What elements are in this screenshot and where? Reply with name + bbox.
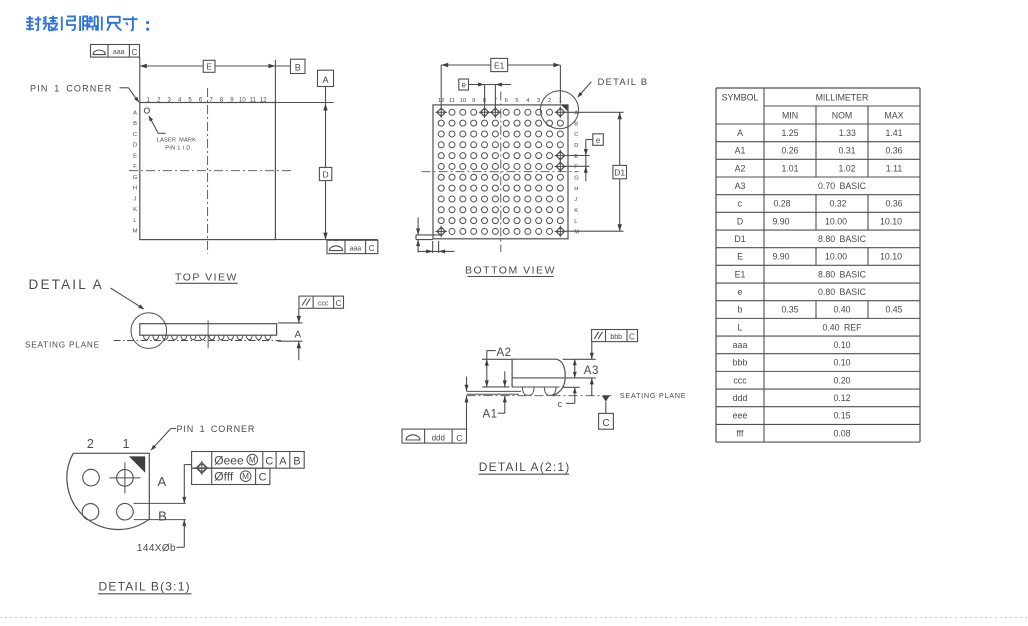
svg-text:c: c (558, 399, 563, 409)
svg-text:C: C (456, 433, 462, 443)
svg-text:0.80 BASIC: 0.80 BASIC (818, 287, 867, 297)
top view column numbers (147, 97, 268, 103)
feature control frame aaa (top-left) (91, 45, 140, 58)
svg-text:2: 2 (548, 98, 551, 104)
svg-text:D1: D1 (614, 167, 625, 177)
svg-text:c: c (738, 199, 743, 209)
feature control frame bbb (592, 330, 638, 342)
svg-text:Øeee: Øeee (214, 453, 244, 467)
svg-text:L: L (133, 218, 137, 224)
bbb leader arrow (590, 342, 594, 360)
svg-text:fff: fff (736, 428, 744, 438)
svg-text:L: L (574, 219, 578, 225)
substrate tail lines (467, 391, 522, 394)
bottom view package outline (433, 105, 568, 239)
detail B solder balls (82, 469, 133, 520)
svg-text:0.36: 0.36 (885, 146, 902, 156)
bottom view column numbers (438, 98, 562, 104)
svg-text:bbb: bbb (610, 334, 622, 341)
pin 1 wedge (bottom view) (561, 105, 567, 111)
svg-text:DETAIL B(3:1): DETAIL B(3:1) (99, 579, 191, 593)
svg-text:MAX: MAX (884, 110, 903, 120)
svg-text:A3: A3 (735, 181, 746, 191)
svg-text:C: C (369, 244, 375, 253)
svg-text:SYMBOL: SYMBOL (722, 92, 759, 102)
bottom edge extension (275, 239, 377, 241)
side view body (140, 324, 277, 336)
svg-text:A2: A2 (497, 347, 512, 359)
svg-text:e: e (738, 287, 743, 297)
side view centerline tick (207, 320, 209, 348)
pin 1 corner callout (detail B) (151, 424, 256, 451)
svg-text:0.45: 0.45 (885, 305, 902, 315)
svg-text:C: C (602, 418, 609, 429)
svg-text:0.32: 0.32 (829, 199, 846, 209)
callout 144Xb (137, 520, 186, 554)
detail A body section (512, 359, 565, 395)
svg-text:aaa: aaa (733, 340, 748, 350)
laser mark leader arrow (149, 115, 166, 133)
label BOTTOM VIEW (465, 265, 556, 277)
svg-text:M: M (249, 456, 256, 465)
dimension D1 with extension lines (566, 112, 627, 231)
top view row letters (133, 110, 138, 234)
position frame leader arrow (182, 465, 191, 504)
svg-text:0.28: 0.28 (773, 199, 790, 209)
svg-text:10.00: 10.00 (825, 252, 847, 262)
svg-text:C: C (265, 455, 273, 467)
svg-text:0.10: 0.10 (833, 358, 850, 368)
svg-text:E1: E1 (735, 269, 746, 279)
row label A (157, 474, 166, 489)
svg-text:D: D (133, 143, 137, 149)
pin 1 wedge (detail B) (129, 456, 145, 472)
svg-text:E: E (737, 252, 743, 262)
svg-text:0.36: 0.36 (885, 199, 902, 209)
svg-text:M: M (574, 230, 579, 236)
seating plane text (side view) (25, 340, 100, 349)
svg-text:A: A (737, 128, 743, 138)
dimension A3 (563, 359, 599, 378)
svg-text:aaa: aaa (113, 49, 125, 56)
svg-text:A1: A1 (735, 146, 746, 156)
dimension A1 (483, 371, 507, 420)
svg-text:10: 10 (460, 98, 466, 104)
svg-text:M: M (133, 229, 138, 235)
datum label B (291, 59, 306, 73)
svg-text:J: J (134, 196, 137, 202)
svg-text:F: F (133, 164, 137, 170)
feature control frame aaa (bottom-right) (327, 240, 378, 253)
ddd measurement arrows (465, 377, 469, 430)
bottom view solder ball grid (438, 109, 563, 234)
svg-text:e: e (596, 136, 601, 145)
svg-text:0.40: 0.40 (833, 305, 850, 315)
svg-text:A1: A1 (483, 408, 498, 420)
svg-text:9.90: 9.90 (772, 216, 789, 226)
svg-text:SEATING PLANE: SEATING PLANE (25, 340, 100, 349)
svg-text:C: C (574, 132, 578, 138)
svg-text:PIN 1 CORNER: PIN 1 CORNER (177, 424, 256, 434)
dimension e (ball pitch, right) (565, 134, 604, 182)
dimension e (ball pitch, top) (459, 79, 511, 112)
svg-text:0.20: 0.20 (833, 375, 850, 385)
svg-text:E: E (133, 153, 137, 159)
svg-text:M: M (242, 472, 249, 481)
svg-text:J: J (574, 197, 577, 203)
feature control frame ccc (299, 296, 344, 308)
svg-text:SEATING PLANE: SEATING PLANE (620, 391, 687, 400)
bottom view row letters (574, 111, 579, 236)
detail B circle (541, 91, 579, 129)
label DETAIL A(2:1) (479, 460, 571, 474)
svg-text:L: L (738, 322, 743, 332)
dimension D with arrows and boxed label D (319, 87, 331, 240)
svg-text:1.33: 1.33 (839, 128, 856, 138)
svg-text:bbb: bbb (733, 358, 748, 368)
svg-text:BOTTOM VIEW: BOTTOM VIEW (465, 265, 556, 277)
svg-text:5: 5 (515, 98, 518, 104)
pin 1 corner callout (top view) (30, 84, 139, 103)
svg-text:C: C (336, 299, 342, 308)
svg-text:E1: E1 (494, 60, 505, 70)
svg-text:1.01: 1.01 (781, 163, 798, 173)
svg-text:DETAIL A(2:1): DETAIL A(2:1) (479, 460, 571, 474)
svg-text:A: A (294, 329, 301, 340)
title text 封装|引脚|尺寸: (26, 16, 149, 31)
svg-text:C: C (259, 472, 267, 484)
svg-text:ccc: ccc (733, 375, 747, 385)
svg-text:4: 4 (526, 98, 530, 104)
label TOP VIEW (175, 271, 238, 283)
seating plane dash-dot line (467, 395, 615, 397)
bottom view vertical centerline (500, 92, 502, 253)
row label B (158, 508, 167, 523)
svg-text:C: C (132, 48, 138, 57)
svg-text:0.70 BASIC: 0.70 BASIC (818, 181, 867, 191)
svg-text:11: 11 (250, 97, 257, 103)
dimension A (side view) (278, 308, 303, 360)
svg-text:A3: A3 (584, 365, 599, 377)
svg-text:12: 12 (260, 97, 267, 103)
ball tangent lines (134, 503, 186, 519)
svg-text:aaa: aaa (349, 246, 361, 253)
svg-text:8.80 BASIC: 8.80 BASIC (818, 269, 867, 279)
svg-text:8.80 BASIC: 8.80 BASIC (818, 234, 867, 244)
datum label A (318, 70, 334, 86)
svg-text:ddd: ddd (733, 393, 748, 403)
svg-text:D1: D1 (734, 234, 745, 244)
svg-text:10.10: 10.10 (880, 252, 902, 262)
svg-text:G: G (133, 175, 138, 181)
svg-text:1.02: 1.02 (838, 163, 855, 173)
detail A solder balls (522, 387, 556, 395)
svg-text:11: 11 (449, 98, 455, 104)
seating-to-body arrow (590, 378, 594, 396)
svg-text:D: D (574, 143, 578, 149)
svg-text:DETAIL A: DETAIL A (29, 277, 104, 292)
svg-text:b: b (738, 305, 743, 315)
svg-text:10.00: 10.00 (825, 216, 847, 226)
svg-text:0.31: 0.31 (838, 146, 855, 156)
svg-text:0.15: 0.15 (833, 411, 850, 421)
svg-text:MILLIMETER: MILLIMETER (816, 92, 869, 102)
top view package outline (140, 103, 276, 240)
svg-text:H: H (574, 186, 578, 192)
svg-text:K: K (133, 207, 137, 213)
svg-text:Øfff: Øfff (214, 470, 234, 484)
svg-text:PIN 1 I.D.: PIN 1 I.D. (165, 146, 192, 152)
svg-text:1: 1 (123, 437, 130, 451)
svg-text:A: A (279, 455, 287, 467)
svg-text:0.35: 0.35 (781, 305, 798, 315)
svg-text:1.25: 1.25 (781, 128, 798, 138)
seating plane datum C (599, 396, 614, 429)
bottom view datum balls with crosshairs (435, 107, 566, 238)
svg-text:6: 6 (505, 98, 508, 104)
svg-text:C: C (133, 132, 137, 138)
svg-text:9.90: 9.90 (772, 252, 789, 262)
detail B datum ball A1 crosshair (110, 462, 141, 493)
detail B outline (67, 453, 149, 529)
svg-text:F: F (574, 165, 578, 171)
svg-text:0.26: 0.26 (781, 146, 798, 156)
svg-text:9: 9 (472, 98, 475, 104)
top edge extension (275, 102, 333, 104)
svg-text:E: E (206, 61, 212, 71)
detail A label and leader (29, 277, 145, 310)
top view horizontal centerline (129, 170, 292, 172)
page separator dotted line (0, 617, 1028, 619)
svg-text:1.41: 1.41 (885, 128, 902, 138)
detail A circle (131, 313, 167, 349)
svg-text:ccc: ccc (318, 301, 329, 308)
svg-text:LASER MARK: LASER MARK (157, 138, 196, 144)
svg-text:B: B (293, 455, 300, 467)
label DETAIL B(3:1) (98, 579, 192, 593)
dimension A2 (482, 347, 512, 387)
column label 1 (123, 437, 130, 451)
extension line right edge (274, 60, 276, 103)
svg-text:1.11: 1.11 (886, 163, 903, 173)
svg-text:0.10: 0.10 (833, 340, 850, 350)
top view vertical centerline (207, 88, 209, 254)
svg-text:PIN 1 CORNER: PIN 1 CORNER (30, 84, 112, 94)
svg-text:3: 3 (537, 98, 540, 104)
seating plane dash line (side view) (114, 340, 282, 342)
svg-text:C: C (629, 332, 635, 341)
svg-text:B: B (158, 508, 167, 523)
svg-text:MIN: MIN (782, 110, 798, 120)
laser mark text (157, 138, 196, 152)
svg-text:eee: eee (733, 411, 748, 421)
svg-text:D: D (737, 216, 743, 226)
side view solder balls (144, 335, 271, 340)
seating plane text (detail A) (620, 391, 687, 400)
svg-text:10: 10 (239, 97, 246, 103)
svg-text:A2: A2 (735, 163, 746, 173)
svg-text:E: E (574, 154, 578, 160)
dimension E with arrows and boxed label E (140, 60, 291, 72)
bottom view horizontal centerline (422, 171, 579, 173)
svg-text:ddd: ddd (432, 433, 445, 442)
svg-text:2: 2 (87, 437, 94, 451)
dimension c (558, 387, 580, 409)
column label 2 (87, 437, 94, 451)
svg-text:TOP VIEW: TOP VIEW (175, 271, 238, 283)
svg-text:A: A (322, 75, 328, 85)
svg-text:B: B (295, 62, 301, 72)
svg-text:B: B (133, 121, 137, 127)
svg-text:H: H (133, 186, 137, 192)
svg-text:e: e (461, 81, 466, 90)
detail B label and leader (577, 77, 648, 98)
svg-text:0.40 REF: 0.40 REF (822, 322, 862, 332)
feature control frame ddd (402, 429, 467, 443)
svg-text:NOM: NOM (832, 110, 853, 120)
svg-text:K: K (574, 208, 578, 214)
svg-text:A: A (157, 474, 166, 489)
svg-text:0.12: 0.12 (833, 393, 850, 403)
svg-text:144XØb: 144XØb (137, 543, 176, 554)
svg-text:B: B (574, 121, 578, 127)
svg-text:A: A (133, 110, 137, 116)
extension line left edge to frame (139, 57, 141, 102)
ball edge dimension (bottom-left) (416, 218, 455, 254)
laser mark circle (144, 108, 149, 113)
svg-text:10.10: 10.10 (880, 216, 902, 226)
position tolerance frame (192, 452, 305, 485)
dimensions table (716, 88, 920, 442)
svg-text:0.08: 0.08 (833, 428, 850, 438)
svg-text:G: G (574, 175, 579, 181)
dimension E1 with extension lines (441, 58, 560, 107)
svg-text:D: D (323, 169, 329, 179)
svg-text:DETAIL B: DETAIL B (598, 77, 649, 88)
